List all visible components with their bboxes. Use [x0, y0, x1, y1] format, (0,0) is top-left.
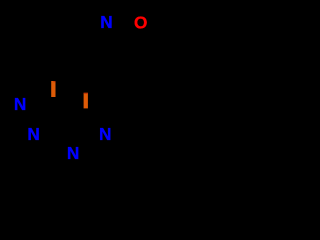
bond NB-U: [57, 133, 67, 146]
bond NM-C8: [10, 120, 25, 129]
bond C4-C5: [96, 51, 122, 70]
bond C8-NL: [10, 111, 15, 120]
bond O1-C3: [143, 30, 150, 52]
bond C3-C4: [122, 52, 150, 70]
bond C9-W: [53, 100, 64, 114]
bond U-NM: [42, 132, 57, 134]
bond U-W ring fusion: [57, 114, 64, 133]
svg-text:O: O: [134, 12, 147, 32]
bond NL-C9: [28, 100, 53, 103]
bond V=NR inner line: [85, 116, 95, 128]
bond V-NR: [86, 112, 99, 127]
bond A1-A2 chain: [84, 68, 87, 89]
svg-text:N: N: [27, 124, 39, 144]
bond NR-C2: [96, 142, 101, 155]
bond W-V: [64, 112, 86, 114]
bond A2-F2 orange colored half: [84, 93, 88, 109]
svg-text:N: N: [14, 94, 26, 114]
bond C5=N1 inner line: [100, 33, 106, 50]
bond C3=C4 inner line: [123, 51, 146, 66]
svg-text:N: N: [67, 143, 79, 163]
bond C2-NB: [81, 153, 96, 155]
bond C9-F1 dark stub: [52, 97, 54, 101]
svg-text:N: N: [99, 124, 111, 144]
bond A2-V dark part: [86, 89, 87, 112]
svg-text:N: N: [100, 12, 112, 32]
bond C5-N1: [96, 30, 103, 51]
bond N1-O1: [115, 21, 132, 23]
bond C5-A1 chain: [84, 51, 96, 68]
bond NL=C9 inner line: [31, 104, 51, 106]
bond C9-F1 orange colored half: [51, 81, 55, 97]
